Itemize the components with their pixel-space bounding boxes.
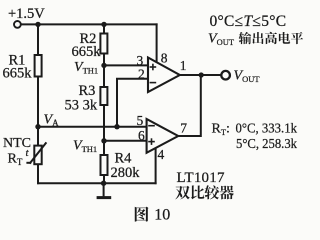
wire pin8 supply drop (156, 24, 158, 63)
ground (97, 183, 112, 197)
junction output node (199, 72, 204, 77)
svg-text:0°C, 333.1k: 0°C, 333.1k (236, 122, 298, 137)
junction rail-R2 (101, 22, 106, 27)
U1B minus input mark (148, 125, 155, 127)
wire pin4 ground drop (155, 148, 157, 183)
label dual comparator (175, 186, 189, 200)
wire R4 bottom lead (103, 175, 105, 183)
svg-text:RT:: RT: (212, 122, 230, 138)
svg-text:LT1017: LT1017 (177, 170, 225, 186)
svg-text:665k: 665k (72, 44, 102, 60)
svg-text:1: 1 (180, 58, 187, 73)
svg-text:4: 4 (158, 147, 165, 162)
resistor R1 (35, 55, 42, 77)
U1A plus input mark (150, 64, 157, 71)
junction ground node (101, 181, 106, 186)
svg-text:0°C≤T≤5°C: 0°C≤T≤5°C (210, 13, 287, 30)
svg-text:8: 8 (161, 51, 168, 66)
U1A minus input mark (150, 82, 157, 84)
svg-text:10: 10 (154, 207, 170, 224)
terminal VOUT (221, 71, 230, 80)
svg-text:2: 2 (138, 67, 145, 82)
svg-text:+1.5V: +1.5V (8, 6, 45, 22)
resistor R3 (100, 87, 107, 105)
node VTH1 junction (101, 63, 106, 68)
resistor R4 (101, 155, 108, 175)
svg-text:280k: 280k (111, 165, 141, 181)
resistor R2 (100, 34, 107, 54)
op-amp U1B comparator (147, 119, 179, 153)
wire NTC bottom lead (37, 164, 39, 183)
svg-text:NTC: NTC (3, 136, 31, 151)
wire bottom ground rail (38, 182, 156, 184)
op-amp U1A comparator (148, 58, 180, 93)
wire pin2 branch (117, 79, 148, 127)
svg-text:53 3k: 53 3k (65, 98, 98, 114)
terminal +1.5V (14, 21, 21, 28)
svg-text:5°C, 258.3k: 5°C, 258.3k (236, 137, 297, 152)
wire R3 to R4 (103, 105, 105, 155)
svg-text:7: 7 (180, 121, 187, 136)
thermistor RT (NTC) (26, 142, 46, 164)
wire R1 top lead (37, 24, 39, 55)
wire pin7 to pin1 (178, 75, 201, 136)
svg-text:6: 6 (138, 128, 145, 143)
junction pin2 branch on VA wire (114, 124, 119, 129)
wire VTH2 to pin6 (104, 140, 147, 142)
caption fig10 (135, 207, 149, 222)
wire VTH1 to pin3 (104, 64, 148, 66)
junction rail-R1 (35, 22, 40, 27)
wire VA to pin5 (38, 126, 147, 128)
node VTH2 junction (101, 138, 106, 143)
wire R2 top lead (103, 24, 105, 33)
wire R1 bottom to VA node (37, 77, 39, 146)
wire R2 to R3 (103, 54, 105, 88)
U1B plus input mark (148, 138, 155, 145)
svg-text:665k: 665k (3, 66, 33, 82)
node VA junction (35, 124, 40, 129)
svg-text:5: 5 (137, 113, 144, 128)
wire output pin1 (180, 74, 222, 76)
wire top +1.5V rail (21, 23, 156, 25)
